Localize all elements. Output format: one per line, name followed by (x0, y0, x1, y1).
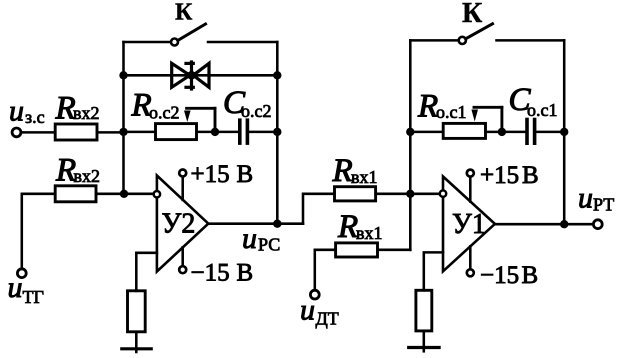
label R_vx2 (top) (55, 91, 100, 127)
svg-text:РТ: РТ (593, 195, 614, 215)
svg-text:В: В (522, 162, 539, 189)
wire: R_o.s2 to wiper junction (197, 131, 216, 134)
label R_vx1 (bottom) (337, 209, 383, 245)
label R_o.s1 (417, 89, 467, 125)
label C_o.s2 (223, 85, 272, 121)
node: junction wiper / capacitor (U1) (498, 128, 506, 136)
svg-text:вх1: вх1 (351, 167, 378, 187)
node: junction wiper / capacitor (211, 128, 219, 136)
svg-text:о.с2: о.с2 (241, 101, 272, 121)
capacitor C_o.s1 (527, 118, 535, 145)
svg-text:u: u (578, 182, 593, 215)
terminal u_z.s input (12, 128, 21, 137)
wire: u_DT terminal up and right to R_vx1 (bottom) (315, 250, 336, 290)
svg-text:u: u (8, 271, 23, 304)
wiper arm of R_o.s1 (471, 107, 502, 132)
wire: bidirectional zener row (U2 loop) (124, 74, 278, 77)
svg-text:вх2: вх2 (74, 166, 101, 186)
wire: u_TG terminal up and right to R_vx2 (bottom) (22, 194, 55, 269)
pin -15V of U1 (467, 246, 474, 276)
wire: inverting node to U1 input (410, 193, 440, 196)
svg-text:−15: −15 (480, 262, 519, 289)
label R_vx1 (top) (332, 153, 378, 189)
wire: right feedback vertical of U1 loop (563, 40, 566, 224)
resistor R_vx1 (bottom) (336, 243, 378, 257)
resistor R_vx2 (top) (55, 124, 97, 140)
switch K (stage 1): pivot circle and arm (459, 24, 493, 44)
wire: bias resistor to ground (stage 1) (423, 331, 426, 351)
label +15 V (U1) (480, 162, 539, 189)
wire: bias resistor to ground (135, 332, 138, 352)
svg-text:В: В (522, 262, 539, 289)
label U1 (452, 209, 486, 240)
label u_DT (300, 294, 339, 329)
switch K (stage 2): pivot circle and arm (171, 24, 206, 46)
wire: R_vx1 (bottom) to left feedback vertical (378, 249, 411, 252)
node: junction right end of RC row (U1) (560, 128, 568, 136)
node: junction left end of RC feedback row (U2) (119, 128, 127, 136)
op-amp U2 (154, 176, 209, 272)
svg-text:ДТ: ДТ (316, 309, 339, 329)
label u_RT (578, 182, 614, 215)
terminal u_RT output (593, 220, 602, 229)
svg-text:В: В (237, 161, 254, 188)
wire: R_vx2 (bottom) to inverting node (96, 193, 124, 196)
svg-text:R: R (417, 89, 438, 125)
wiper arm of R_o.s2 (arrow onto resistor, to output node) (184, 108, 215, 132)
svg-text:u: u (300, 294, 315, 327)
node: junction left end of RC row (U1) (406, 128, 414, 136)
wire: R_vx2 (top) to left feedback vertical (97, 131, 124, 134)
svg-text:+15: +15 (191, 161, 230, 188)
node: U2 output junction with feedback vertical (273, 220, 281, 228)
wire: left feedback vertical of U1 loop (409, 40, 412, 249)
resistor R_vx2 (bottom) (55, 186, 96, 202)
svg-text:вх1: вх1 (356, 223, 383, 243)
node: junction right end of RC row (U2) (273, 128, 281, 136)
diode VD: bidirectional zener (back-to-back) limiter (172, 62, 209, 89)
svg-text:вх2: вх2 (73, 103, 100, 123)
svg-text:u: u (242, 222, 257, 255)
node: inverting input node of U2 (120, 190, 128, 198)
label -15 V (U1) (480, 262, 538, 289)
svg-text:u: u (9, 95, 24, 128)
wire: C_o.s1 to right feedback vertical (536, 131, 564, 134)
svg-text:У2: У2 (162, 209, 196, 240)
svg-text:К: К (462, 0, 483, 29)
terminal u_DT input (310, 290, 319, 299)
svg-text:К: К (175, 0, 193, 26)
svg-text:о.с1: о.с1 (436, 102, 467, 122)
wire: left feedback vertical of U2 loop (122, 42, 125, 194)
wire: top row left segment to switch K (U2 loop) (124, 41, 172, 44)
wire: R_vx1 (top) to inverting node of U1 (376, 193, 411, 196)
wire: top row left segment to switch K (U1 loop) (410, 39, 459, 42)
svg-text:−15: −15 (191, 259, 230, 286)
label -15 V (U2) (191, 259, 254, 286)
wire: junction to C_o.s2 (215, 131, 238, 134)
wire: top row right segment after switch (U1 loop) (497, 39, 565, 42)
wire: top row right segment after switch (U2 loop) (208, 41, 277, 44)
node: junction right end of zener row (273, 71, 281, 79)
node: U1 output junction with feedback vertical (560, 220, 568, 228)
label +15 V (U2) (191, 161, 254, 188)
svg-text:РС: РС (258, 235, 280, 255)
ground (stage 1) (409, 346, 439, 349)
resistor R_vx1 (top) (335, 187, 376, 201)
svg-text:R: R (332, 153, 353, 189)
label U2 (162, 209, 196, 240)
wire: from u_z.s terminal to R_vx2 (top) (21, 131, 55, 134)
pin -15V of U2 (179, 247, 186, 273)
label u_TG (8, 271, 44, 307)
node: junction left end of zener row (119, 71, 127, 79)
svg-text:з.с: з.с (25, 107, 45, 127)
wire: U1 non-inverting input to ground resistor (424, 252, 443, 290)
resistor: U2 non-inverting bias resistor to ground (128, 291, 146, 332)
svg-text:+15: +15 (480, 162, 519, 189)
resistor R_o.s2 (feedback potentiometer) (156, 124, 197, 140)
node: inverting input node of U1 (406, 190, 414, 198)
wire: C_o.s2 to right feedback vertical (249, 131, 277, 134)
pin +15V of U2 (179, 170, 186, 200)
wire: RC row, left vertical to R_o.s2 (124, 131, 156, 134)
wire: junction to C_o.s1 (502, 131, 525, 134)
terminal u_TG input (17, 269, 26, 278)
label R_vx2 (bottom) (55, 153, 100, 189)
svg-text:о.с1: о.с1 (527, 100, 558, 120)
capacitor C_o.s2 (240, 118, 248, 144)
svg-text:о.с2: о.с2 (149, 102, 180, 122)
label R_o.s2 (131, 88, 180, 124)
op-amp U1 (440, 177, 495, 272)
label K (stage 1 switch) (462, 0, 483, 29)
resistor R_o.s1 (feedback potentiometer) (443, 123, 485, 138)
wire: inverting node to U2 input (124, 193, 154, 196)
wire: step from U2 output up to R_vx1 (top) (303, 194, 335, 224)
wire: U2 output (208, 222, 303, 225)
svg-text:R: R (337, 209, 358, 245)
svg-text:ТГ: ТГ (23, 287, 44, 307)
svg-text:У1: У1 (452, 209, 486, 240)
wire: U1 output (495, 223, 594, 226)
wire: right feedback vertical of U2 loop (276, 42, 279, 224)
wire: RC row (U1) left vertical to R_o.s1 (410, 131, 443, 134)
ground (stage 2) (122, 347, 151, 350)
svg-text:В: В (237, 259, 254, 286)
wire: U2 non-inverting input to ground resistor (136, 253, 157, 291)
label K (stage 2 switch) (175, 0, 193, 26)
label C_o.s1 (509, 82, 558, 120)
pin +15V of U1 (467, 170, 474, 202)
resistor: U1 non-inverting bias resistor to ground (416, 290, 432, 331)
label u_RS (U2 output voltage) (242, 222, 280, 255)
wire: R_o.s1 to wiper junction (486, 131, 502, 134)
label u_z.s (9, 95, 45, 128)
